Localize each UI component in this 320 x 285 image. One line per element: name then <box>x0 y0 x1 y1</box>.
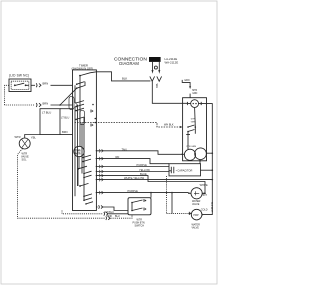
svg-text:HOT: HOT <box>202 194 208 197</box>
svg-text:BLUE: BLUE <box>140 172 147 176</box>
svg-text:VALVE: VALVE <box>192 203 200 206</box>
svg-text:BLK WHT: BLK WHT <box>210 202 212 213</box>
svg-text:2YR GRN: 2YR GRN <box>186 146 196 148</box>
timer internal contact T4 <box>75 110 77 112</box>
wire diagonal into timer contact <box>60 88 77 105</box>
label 2YR GRN <box>186 146 196 148</box>
motor internal contacts <box>187 126 189 128</box>
motor protector <box>191 188 202 199</box>
timer internal contact T9 <box>83 196 85 198</box>
label 6YR GRN <box>191 119 196 124</box>
label push button switch <box>133 218 145 227</box>
wire GRN ground to motor frame <box>182 80 190 88</box>
scan border frame (decorative) <box>1 1 217 284</box>
power cord plug (black block) <box>149 57 161 62</box>
timer label <box>72 63 94 70</box>
wire RD timer to capacitor box <box>96 159 169 164</box>
wire timer to push button (dashed middle) <box>62 211 103 214</box>
connector plug symbol <box>106 216 110 220</box>
wire branch to push button switch <box>150 193 152 198</box>
capacitor symbol <box>169 167 174 173</box>
timer internal contact T6 <box>77 168 79 170</box>
wire WH from connector to motor switch <box>152 81 186 103</box>
svg-text:SWITCH: SWITCH <box>135 224 145 227</box>
svg-text:6YR: 6YR <box>191 119 196 121</box>
label water solenoid <box>192 223 201 229</box>
svg-text:PNK: PNK <box>107 215 112 218</box>
svg-text:• CAPACITOR: • CAPACITOR <box>176 168 193 172</box>
svg-text:MTR: MTR <box>75 152 81 155</box>
svg-text:WH BLU: WH BLU <box>105 211 115 214</box>
label water valve sol <box>21 152 29 161</box>
pump terminals <box>189 213 191 215</box>
wire branch down to pump (dashed) <box>166 176 168 213</box>
lid switch box <box>9 79 31 92</box>
svg-text:SOL: SOL <box>22 158 28 161</box>
svg-text:VALVE: VALVE <box>192 226 200 229</box>
wire YELLOW <box>96 171 169 173</box>
svg-text:WH: WH <box>155 84 159 89</box>
svg-text:PURPLE: PURPLE <box>128 189 139 193</box>
svg-text:GRN: GRN <box>191 121 196 123</box>
svg-text:WHITE: WHITE <box>200 184 208 187</box>
motor internal vertical links <box>188 108 195 150</box>
noise filter box LT BLU <box>40 109 60 135</box>
connector plug symbol <box>36 83 41 87</box>
wire branch down to pump 2 <box>171 193 173 214</box>
timer internal contact T8 <box>79 185 81 187</box>
svg-text:YELLOW: YELLOW <box>139 168 150 172</box>
svg-text:TAN: TAN <box>122 147 127 151</box>
lid switch contact <box>14 84 16 86</box>
harness dashed wire crossing <box>75 123 181 128</box>
pump solenoid <box>191 209 202 220</box>
wire N drop from plug <box>158 62 160 71</box>
label MTR PROTECTOR <box>192 200 201 206</box>
timer motor <box>74 146 84 156</box>
connector Y (black lead) <box>150 76 155 81</box>
wire filter to timer <box>60 134 73 136</box>
label motor ground <box>192 90 197 95</box>
wire BLK from connector to timer <box>96 72 150 81</box>
capacitor box <box>169 164 201 176</box>
wire PURPLE lower to protector <box>96 192 188 194</box>
connector pill inside timer <box>80 110 85 124</box>
motor start switch <box>191 100 199 108</box>
svg-text:BRN: BRN <box>62 130 68 134</box>
wire L1 drop from plug <box>152 62 154 71</box>
connector pill on timer edge <box>69 96 74 109</box>
svg-text:WA-2112E: WA-2112E <box>165 60 179 64</box>
junction <box>59 104 61 106</box>
wire lid switch to timer (top) <box>31 84 35 86</box>
inline wire connectors at timer exits <box>99 149 103 152</box>
connector plug symbol <box>36 103 41 107</box>
timer box <box>73 70 97 211</box>
model number label LA-2112 <box>165 57 179 64</box>
svg-text:(LID SW NC): (LID SW NC) <box>9 74 29 78</box>
svg-text:WTR: WTR <box>15 135 21 139</box>
motor windings <box>184 149 195 160</box>
wire TAN timer to motor winding <box>96 151 184 155</box>
svg-text:BLU: BLU <box>115 215 120 218</box>
wire timer to push button (upper) <box>96 206 97 208</box>
strain relief mark <box>154 66 157 69</box>
svg-text:BLK: BLK <box>122 76 127 80</box>
wire winding to right bus <box>206 152 212 154</box>
svg-text:MTR: MTR <box>192 90 197 92</box>
timer internal contact T2 <box>76 83 78 85</box>
svg-text:GRD: GRD <box>192 93 197 95</box>
wire BLUE <box>96 176 205 194</box>
wire capacitor to right bus <box>201 169 213 171</box>
title CONNECTION DIAGRAM <box>114 57 147 66</box>
wire valve top <box>25 135 40 139</box>
svg-text:PURPLE: PURPLE <box>137 163 148 167</box>
svg-text:PMP: PMP <box>193 214 199 217</box>
switch contacts <box>131 202 133 204</box>
wire valve bottom down (dashed) <box>18 149 106 219</box>
wire to timer <box>51 104 73 106</box>
svg-text:BRN: BRN <box>43 82 49 86</box>
svg-text:LT BLU: LT BLU <box>61 116 69 119</box>
push button switch box <box>128 198 151 215</box>
wire dashed to pump left <box>167 212 190 214</box>
svg-text:WH BLK: WH BLK <box>164 124 174 127</box>
wire WHITE-YELLOW <box>96 179 212 181</box>
svg-text:BRN: BRN <box>43 101 49 105</box>
svg-text:RD: RD <box>116 155 120 159</box>
wire PURPLE timer to capacitor <box>96 166 169 168</box>
connector Y (white lead) <box>157 76 162 81</box>
wire lid switch left, down (dashed) <box>5 85 35 105</box>
svg-text:LT BLU: LT BLU <box>42 110 51 114</box>
wire motor switch to right bus, down to pump <box>202 104 212 215</box>
svg-text:GRN: GRN <box>184 79 190 82</box>
timer internal contact T1 <box>79 75 81 77</box>
water valve solenoid <box>19 138 30 149</box>
svg-text:YBL: YBL <box>31 136 37 140</box>
svg-text:DIAGRAM: DIAGRAM <box>119 61 139 66</box>
svg-text:COLD: COLD <box>201 209 208 212</box>
timer internal contact T5 <box>82 157 84 159</box>
motor box <box>183 98 207 161</box>
timer internal contact T7 <box>83 173 85 175</box>
svg-text:WHITE-YELLOW: WHITE-YELLOW <box>124 176 145 180</box>
timer internal contact T3 <box>75 102 77 104</box>
